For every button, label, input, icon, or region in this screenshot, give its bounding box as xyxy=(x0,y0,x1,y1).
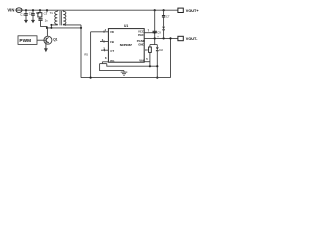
pin 3 tick xyxy=(104,49,106,51)
node drain vertical on ground rail corner xyxy=(90,77,92,79)
wire top input/output rail xyxy=(22,9,178,11)
resistor R1 xyxy=(36,10,42,17)
wire vertical x=90.6 down to ground rail xyxy=(90,32,92,78)
wire ground bus W1 under IC xyxy=(107,64,158,67)
wire bottom ground rail xyxy=(81,77,171,79)
pin 3 stub xyxy=(101,49,108,51)
earth ground symbol xyxy=(121,71,128,76)
svg-text:2x: 2x xyxy=(45,18,49,22)
capacitor C2 xyxy=(29,10,35,20)
left winding xyxy=(51,10,57,28)
capacitor C7 xyxy=(162,10,170,26)
svg-text:U1: U1 xyxy=(124,24,128,28)
right winding xyxy=(63,10,81,25)
node up-leg on VOUT- rail xyxy=(169,37,171,39)
svg-text:D2: D2 xyxy=(159,48,163,52)
svg-text:FB: FB xyxy=(110,40,114,44)
node on rail at C4 xyxy=(46,9,48,11)
svg-text:VIN: VIN xyxy=(7,8,14,13)
wire stub below C4 rail node xyxy=(46,10,48,12)
wire feedback top bar xyxy=(150,38,157,44)
wire ground rail up-leg to VOUT- rail xyxy=(170,38,172,77)
node on rail at C1 xyxy=(25,9,27,11)
wire primary-bottom bus y=28 xyxy=(47,27,81,29)
svg-text:VOUT-: VOUT- xyxy=(186,37,198,41)
ground arrow for Q1 xyxy=(44,49,48,53)
node D leg on W1 xyxy=(156,65,158,67)
svg-text:CT: CT xyxy=(110,49,114,53)
PWM input box xyxy=(18,36,37,45)
capacitor C1 xyxy=(20,10,28,20)
node snubber junction xyxy=(46,27,48,29)
pin 5 stub xyxy=(144,61,150,63)
connector J1 VOUT+ xyxy=(178,8,183,12)
svg-text:C2: C2 xyxy=(29,12,33,16)
wire pin8 bar xyxy=(100,63,107,65)
pin 7 stub (VCC) xyxy=(144,32,155,34)
svg-text:VAC: VAC xyxy=(139,58,145,62)
capacitor C9 xyxy=(153,10,162,38)
svg-text:C7: C7 xyxy=(166,14,170,18)
node C9 on top rail xyxy=(154,9,156,11)
svg-text:NCP1067: NCP1067 xyxy=(120,43,132,47)
svg-text:R5: R5 xyxy=(84,53,88,57)
node C9 on VOUT- rail xyxy=(154,37,156,39)
svg-text:T1: T1 xyxy=(50,11,54,15)
op-amp / controller IC U1 box xyxy=(108,29,144,63)
node drain corner junction xyxy=(80,27,82,29)
fuse F1 xyxy=(16,8,22,13)
wire drain vertical xyxy=(80,25,82,78)
svg-text:GND: GND xyxy=(138,43,144,47)
pin 2 tick xyxy=(103,40,105,42)
ground arrow for C1 xyxy=(24,20,28,23)
svg-text:PG: PG xyxy=(110,59,114,63)
svg-text:VD: VD xyxy=(110,30,114,34)
wire IC pin4 to drain-side vertical xyxy=(91,31,109,33)
svg-text:VOUT+: VOUT+ xyxy=(186,9,200,13)
svg-text:R7: R7 xyxy=(145,48,149,52)
phase dot secondary xyxy=(65,24,67,26)
svg-text:8: 8 xyxy=(105,56,107,60)
wire outer drop to earth ground xyxy=(100,64,124,71)
node primary bottom junction xyxy=(50,27,52,29)
svg-text:R1: R1 xyxy=(36,11,40,15)
node C7 on VOUT- rail xyxy=(163,37,165,39)
svg-text:+: + xyxy=(157,35,159,38)
transistor Q1 xyxy=(44,28,52,49)
diode D2 xyxy=(156,45,164,78)
diode D3 xyxy=(162,27,165,39)
transformer T1 xyxy=(50,10,81,28)
wire PWM to Q1 base xyxy=(37,39,44,41)
node D leg on ground rail xyxy=(156,77,158,79)
svg-text:C1: C1 xyxy=(20,12,24,16)
svg-text:7: 7 xyxy=(148,28,150,32)
core lines xyxy=(60,11,61,25)
bottom pin 8 stub xyxy=(102,62,108,64)
node C7 on top rail xyxy=(163,9,165,11)
svg-text:PWM: PWM xyxy=(19,38,31,43)
svg-text:5: 5 xyxy=(146,57,148,61)
node on rail at R1 xyxy=(39,9,41,11)
wire VOUT- rail xyxy=(144,37,178,39)
svg-text:C9: C9 xyxy=(157,31,161,35)
pin 4 tick xyxy=(103,31,105,33)
ground arrow for C2 xyxy=(31,20,35,23)
phase dot primary xyxy=(50,24,52,26)
connector J2 VOUT- xyxy=(178,36,183,40)
capacitor C4 xyxy=(38,17,48,28)
resistor R7 xyxy=(145,45,151,67)
svg-text:PGD: PGD xyxy=(138,34,144,37)
node on rail at C2 xyxy=(32,9,34,11)
svg-text:Q1: Q1 xyxy=(53,37,57,41)
node pin7 stub on C9 leg xyxy=(154,32,156,34)
node W1 / R leg junction xyxy=(149,65,151,67)
pin 2 stub xyxy=(100,41,108,43)
